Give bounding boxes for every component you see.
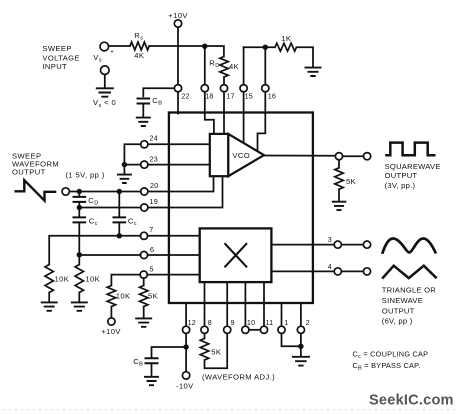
wire CC-left to pin6 node (78, 223, 80, 265)
wire Vs return to ground (104, 75, 106, 88)
wire CC-right to pin7 node (118, 223, 120, 236)
watermark SeekIC.com (369, 393, 454, 409)
resistor 10K (pin5 to +10V) (107, 286, 130, 307)
wire pin12 riser (185, 303, 187, 326)
node pin12 junction (183, 344, 188, 349)
pin 4 terminal A (334, 268, 341, 275)
sweep output terminal (62, 188, 69, 195)
pin 9 terminal (224, 318, 235, 334)
pin 22 terminal (174, 85, 189, 101)
wire junction to -10V (185, 350, 187, 372)
wire top rail (149, 46, 224, 57)
svg-text:10K: 10K (85, 275, 100, 284)
resistor 5K (pin5) (140, 286, 159, 307)
VCO input block (210, 134, 229, 176)
wire pin2 riser (300, 303, 302, 326)
svg-text:INPUT: INPUT (42, 62, 67, 71)
svg-text:18: 18 (205, 91, 213, 100)
wire CB to ground (142, 104, 144, 118)
wire pin20 to output terminal (69, 191, 140, 193)
label SWEEP WAVEFORM OUTPUT (12, 152, 105, 180)
pin 8 terminal (201, 318, 212, 334)
wire pin20 into IC (148, 176, 214, 191)
svg-text:10K: 10K (55, 275, 70, 284)
svg-text:7: 7 (149, 225, 153, 234)
ground (10K pin6) (71, 302, 88, 310)
node pins 23/24 (122, 162, 127, 167)
wire CD bottom (78, 202, 80, 207)
wire pin5 left stub (111, 275, 140, 286)
svg-text:5K: 5K (148, 291, 158, 300)
label pin 4 (328, 262, 332, 271)
wire pin7 into IC (148, 235, 200, 237)
pin 5 terminal (140, 264, 154, 278)
wire pin22 into IC (177, 92, 179, 114)
triangle waveform icon (382, 266, 436, 279)
resistor R_s (130, 31, 149, 60)
wire pin2 down (300, 333, 302, 356)
node rail junction (202, 44, 207, 49)
capacitor C_D (73, 196, 99, 207)
svg-text:1K: 1K (281, 34, 291, 43)
node pin7 CC junction (117, 233, 122, 238)
svg-text:(6V, pp ): (6V, pp ) (382, 317, 413, 326)
wire 5K top (143, 278, 145, 285)
svg-text:10K: 10K (116, 291, 131, 300)
wire CC-left top (78, 208, 80, 217)
wire junction to pin 18 (204, 49, 206, 85)
ground (pins 23/24) (117, 175, 132, 183)
svg-text:20: 20 (150, 181, 158, 190)
svg-text:VCO: VCO (232, 151, 250, 160)
wire 5K top (338, 160, 340, 168)
terminal Vs return (101, 66, 110, 75)
wire pin22 to CB (143, 88, 174, 96)
wire 10K to +10V terminal (110, 307, 112, 318)
svg-text:4K: 4K (229, 62, 239, 71)
wire junction to pin16 (264, 50, 266, 85)
wire pin15 into IC (243, 92, 245, 142)
wire pin19 left stub (79, 207, 140, 209)
svg-text:TRIANGLE OR: TRIANGLE OR (382, 286, 436, 295)
wire to ground 23/24 (123, 167, 125, 174)
svg-text:+: + (110, 49, 114, 55)
svg-text:(WAVEFORM ADJ.): (WAVEFORM ADJ.) (202, 373, 275, 382)
wire CD top (78, 192, 80, 196)
wire pin1 down (282, 333, 299, 346)
wire input to Rs (109, 45, 130, 47)
ground (CB top) (136, 118, 151, 126)
wire 5K to pin9 (205, 333, 228, 368)
pin 4 terminal B (363, 268, 370, 275)
pin 10 terminal (242, 318, 256, 334)
wire 10K to ground (48, 293, 50, 303)
pin 7 terminal (140, 225, 153, 239)
wire pins 10-11 link (249, 329, 260, 331)
label pin 3 (328, 235, 332, 244)
power terminal -10V (176, 372, 194, 391)
node 1K junction (263, 45, 268, 50)
pin 15 terminal (240, 85, 253, 101)
wire pin12 down (185, 333, 187, 344)
wire pin24-23 link (124, 144, 140, 164)
wire pin3 terminals (341, 244, 363, 246)
wire pin18 into IC (205, 92, 214, 134)
wire junction to CB (152, 347, 184, 357)
wire pin4 terminals (341, 270, 363, 272)
svg-text:1: 1 (284, 318, 288, 327)
wire VCO output (264, 155, 335, 157)
pin 19 terminal (141, 197, 158, 211)
pin 11 terminal (260, 318, 273, 334)
svg-text:19: 19 (150, 197, 158, 206)
svg-text:+10V: +10V (101, 327, 121, 336)
wire 5K to ground (143, 307, 145, 319)
VCO op-amp triangle (228, 134, 264, 176)
sine waveform icon (382, 239, 436, 254)
wire pin5 into IC (147, 274, 199, 276)
power terminal +10V (lower) (101, 318, 121, 336)
ground (pin5 5K) (135, 318, 152, 326)
pin 6 terminal (140, 245, 154, 259)
svg-text:4K: 4K (134, 51, 144, 60)
pin 18 terminal (201, 85, 213, 101)
node pin6 left end (77, 252, 82, 257)
wire pin10 riser (244, 282, 246, 326)
resistor 5K (squarewave load) (335, 168, 356, 189)
svg-text:22: 22 (181, 91, 189, 100)
svg-text:6: 6 (150, 245, 154, 254)
ground (CB bottom) (144, 377, 159, 385)
svg-text:16: 16 (268, 91, 276, 100)
node CC right top (117, 189, 122, 194)
svg-text:(1 5V, pp ): (1 5V, pp ) (66, 170, 105, 179)
resistor R_D 4K (209, 57, 239, 78)
wire RD to pin 17 (223, 77, 225, 85)
resistor 1K (275, 34, 296, 51)
ground (10K pin7) (41, 302, 58, 310)
pin 12 terminal (183, 318, 197, 334)
wire pin15 riser (243, 47, 245, 84)
wire pin9 riser (226, 282, 228, 326)
svg-text:5K: 5K (211, 348, 221, 357)
capacitor C_C (left) (73, 216, 98, 227)
multiplier X block (200, 228, 272, 282)
wire pin11 riser (263, 282, 265, 326)
svg-text:+10V: +10V (168, 11, 188, 20)
wire pin19 into IC (148, 176, 223, 207)
ground (pins 1/2) (292, 357, 310, 366)
wire pin3 (271, 244, 334, 246)
svg-text:(3V, pp.): (3V, pp.) (385, 181, 416, 190)
wire pin23 into IC (148, 164, 210, 166)
wire 1K rail (244, 46, 275, 48)
svg-text:23: 23 (150, 154, 158, 163)
wire pin24 into IC (148, 143, 210, 145)
power terminal +10V (168, 11, 188, 27)
legend coupling cap (353, 349, 429, 360)
svg-text:3: 3 (328, 235, 332, 244)
label SWEEP VOLTAGE INPUT (42, 44, 80, 71)
svg-text:10: 10 (247, 318, 255, 327)
svg-text:SeekIC.com: SeekIC.com (369, 393, 454, 409)
wire CC-right top (118, 192, 120, 217)
ground (Vs return) (96, 88, 114, 96)
pin 20 terminal (141, 181, 159, 195)
wire pin8 riser (204, 282, 206, 326)
wire pin16 into IC (258, 92, 266, 151)
svg-text:2: 2 (306, 318, 310, 327)
svg-text:OUTPUT: OUTPUT (385, 171, 418, 180)
wire pin4 (271, 270, 334, 272)
label Vs < 0 (93, 98, 116, 109)
pin 2 terminal (297, 318, 310, 334)
wire pin6 left stub (79, 254, 140, 256)
label WAVEFORM ADJ (202, 373, 275, 382)
pin 1 terminal (278, 318, 289, 334)
sweep input terminal Vs (93, 42, 114, 63)
capacitor C_C (right) (113, 216, 137, 227)
pin 16 terminal (262, 85, 276, 101)
resistor 10K (pin7 net) (45, 265, 69, 293)
svg-text:24: 24 (150, 133, 158, 142)
pin 3 terminal A (334, 241, 341, 248)
resistor 10K (pin6 net) (75, 265, 100, 293)
svg-text:5: 5 (150, 264, 154, 273)
svg-text:OUTPUT: OUTPUT (382, 307, 415, 316)
wire CB to ground (151, 364, 153, 377)
wire 5K to ground (338, 189, 340, 201)
wire 10K to ground (78, 293, 80, 303)
ground (1K) (305, 68, 322, 76)
wire between output terminals (343, 155, 364, 157)
svg-text:5K: 5K (346, 177, 356, 186)
svg-text:SWEEP: SWEEP (42, 44, 71, 53)
wire 1K to ground (297, 47, 314, 67)
wire pin6 into IC (148, 254, 200, 256)
squarewave icon (385, 143, 435, 156)
svg-text:Cc = COUPLING CAP: Cc = COUPLING CAP (353, 349, 429, 360)
svg-text:9: 9 (231, 318, 235, 327)
svg-text:15: 15 (245, 91, 253, 100)
wire pin7 left stub (49, 236, 141, 265)
node CD top (77, 189, 82, 194)
wire +10V to pin 22 (177, 27, 179, 84)
capacitor C_B (bottom) (133, 357, 158, 368)
svg-text:-10V: -10V (176, 381, 194, 390)
sawtooth waveform icon (15, 180, 57, 200)
resistor 5K (waveform adj) (200, 333, 221, 360)
wire pin17 into IC (223, 92, 225, 134)
svg-text:17: 17 (226, 91, 234, 100)
svg-text:11: 11 (266, 318, 274, 327)
node pins 1/2 junction (298, 344, 303, 349)
legend bypass cap (353, 361, 421, 372)
pin 24 terminal (141, 133, 158, 148)
ground (squarewave 5K) (332, 202, 347, 210)
svg-text:SINEWAVE: SINEWAVE (382, 296, 423, 305)
svg-text:12: 12 (188, 318, 196, 327)
pin 23 terminal (141, 154, 158, 168)
node pin19 left end (77, 205, 82, 210)
svg-text:OUTPUT: OUTPUT (12, 168, 46, 177)
svg-text:SQUAREWAVE: SQUAREWAVE (385, 162, 441, 171)
pin 17 terminal (220, 85, 234, 101)
IC U1 outline (169, 113, 313, 304)
wire pin1 riser (281, 303, 283, 326)
capacitor C_B (top) (137, 96, 163, 107)
label TRIANGLE OR SINEWAVE OUTPUT (382, 286, 436, 326)
squarewave output terminal B (364, 153, 371, 160)
svg-text:4: 4 (328, 262, 332, 271)
svg-text:CB = BYPASS CAP.: CB = BYPASS CAP. (353, 361, 421, 372)
label SQUAREWAVE OUTPUT (385, 162, 441, 190)
svg-text:8: 8 (208, 318, 212, 327)
pin 3 terminal B (363, 241, 370, 248)
squarewave output terminal A (335, 153, 342, 160)
